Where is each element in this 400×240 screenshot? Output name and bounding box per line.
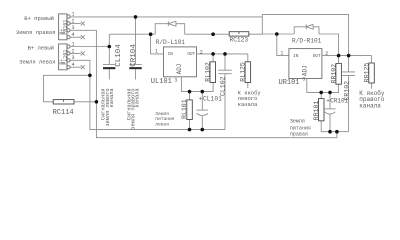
svg-text:RC114: RC114 bbox=[53, 109, 74, 117]
svg-text:RR101: RR101 bbox=[313, 101, 320, 121]
svg-text:1: 1 bbox=[280, 51, 283, 57]
svg-text:2: 2 bbox=[200, 49, 203, 55]
svg-text:CR101: CR101 bbox=[330, 97, 348, 104]
svg-text:1: 1 bbox=[155, 49, 158, 55]
svg-text:левая: левая bbox=[155, 122, 169, 127]
svg-text:питания: питания bbox=[290, 125, 311, 131]
svg-text:RR102: RR102 bbox=[331, 64, 338, 84]
svg-text:Земля: Земля bbox=[155, 111, 169, 117]
svg-text:R/D-R101: R/D-R101 bbox=[292, 38, 322, 45]
svg-text:Земля правая: Земля правая bbox=[16, 29, 56, 36]
svg-text:RL102: RL102 bbox=[205, 62, 212, 82]
svg-text:канала: канала bbox=[238, 101, 259, 108]
svg-text:RL125: RL125 bbox=[240, 62, 247, 82]
svg-text:Земля: Земля bbox=[290, 119, 305, 125]
svg-text:CL101: CL101 bbox=[203, 95, 222, 102]
svg-text:RC123: RC123 bbox=[230, 36, 249, 43]
svg-text:OUT: OUT bbox=[313, 54, 321, 59]
svg-text:3: 3 bbox=[174, 78, 177, 84]
svg-text:UR101: UR101 bbox=[279, 79, 300, 87]
svg-text:IN: IN bbox=[168, 52, 174, 57]
svg-text:ADJ: ADJ bbox=[302, 65, 309, 76]
svg-text:RL101: RL101 bbox=[181, 99, 188, 119]
svg-text:ADJ: ADJ bbox=[176, 64, 183, 75]
svg-text:R/D-L101: R/D-L101 bbox=[156, 39, 186, 46]
svg-text:канала: канала bbox=[359, 102, 381, 109]
svg-text:В+ левый: В+ левый bbox=[28, 45, 54, 52]
svg-text:2: 2 bbox=[325, 51, 328, 57]
svg-text:RR125: RR125 bbox=[363, 63, 370, 83]
svg-text:канала: канала bbox=[135, 88, 141, 107]
svg-text:IN: IN bbox=[293, 54, 299, 59]
svg-text:CL104: CL104 bbox=[115, 44, 123, 67]
svg-text:+: + bbox=[199, 95, 203, 102]
svg-text:В+ правый: В+ правый bbox=[24, 15, 54, 22]
svg-text:CL102: CL102 bbox=[219, 76, 226, 96]
svg-text:правая: правая bbox=[290, 132, 308, 138]
svg-text:канала: канала bbox=[109, 88, 115, 107]
svg-text:Земля левая: Земля левая bbox=[19, 59, 55, 66]
svg-text:3: 3 bbox=[302, 76, 305, 82]
svg-text:CR104: CR104 bbox=[130, 44, 138, 67]
svg-text:OUT: OUT bbox=[187, 52, 195, 57]
svg-text:UL101: UL101 bbox=[151, 78, 172, 86]
